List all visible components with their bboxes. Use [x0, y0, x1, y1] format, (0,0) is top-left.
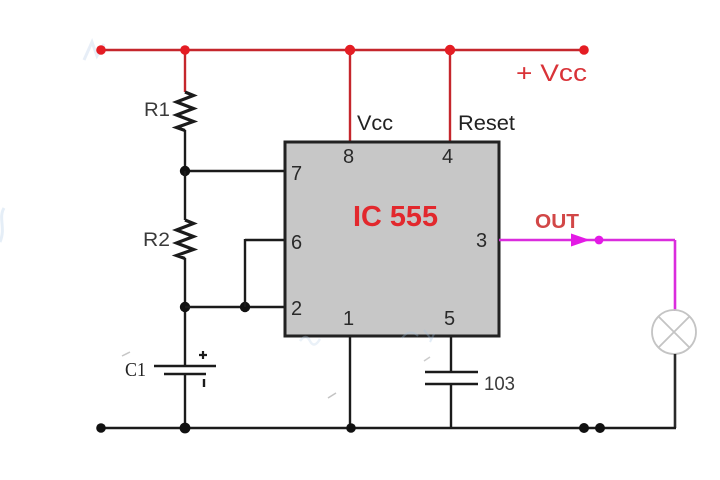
node pin6 drop junction	[240, 302, 250, 312]
node ground dot B	[595, 423, 605, 433]
node ground rail left end	[96, 423, 106, 433]
svg-text:7: 7	[291, 163, 302, 185]
svg-text:4: 4	[442, 146, 453, 168]
wire node to R2	[184, 171, 186, 220]
watermark squiggle left edge	[0, 208, 4, 242]
wire C1 to ground rail	[184, 374, 186, 428]
Vcc rail	[101, 49, 584, 51]
capacitor C2 plate bottom	[425, 383, 478, 386]
node R1-R2-pin7	[180, 166, 190, 176]
svg-text:1: 1	[343, 308, 354, 330]
watermark mark under IC	[300, 337, 320, 345]
node OUT dot	[595, 236, 604, 245]
capacitor C2 plate top	[425, 371, 478, 374]
svg-text:R1: R1	[144, 100, 170, 121]
wire pin 1 to ground	[349, 337, 351, 428]
svg-text:OUT: OUT	[535, 211, 579, 233]
watermark mark inside IC bottom	[402, 330, 434, 342]
wire pin 6 vertical	[244, 239, 246, 307]
svg-text:C1: C1	[125, 359, 146, 381]
wire pin 6 horizontal	[245, 239, 286, 241]
node ground dot A	[579, 423, 589, 433]
OUT arrowhead	[571, 234, 590, 247]
svg-text:6: 6	[291, 232, 302, 254]
wire Vcc to pin 8	[349, 50, 351, 141]
capacitor C1 plate top	[154, 365, 216, 368]
lamp L1 cross	[658, 316, 689, 347]
node pin 8 junction	[345, 45, 355, 55]
wire OUT vertical to lamp	[674, 240, 677, 311]
wire Vcc to R1	[184, 50, 186, 92]
svg-text:2: 2	[291, 298, 302, 320]
ground rail	[101, 427, 676, 429]
wire Vcc to pin 4	[449, 50, 451, 141]
wire lamp to ground rail	[674, 354, 677, 428]
small stray mark 3	[424, 357, 430, 361]
svg-text:103: 103	[484, 374, 515, 395]
node R1 junction	[180, 45, 190, 55]
svg-text:R2: R2	[143, 230, 170, 251]
svg-text:8: 8	[343, 146, 354, 168]
C1 minus tick	[203, 379, 205, 387]
svg-text:Reset: Reset	[458, 112, 515, 135]
svg-text:IC 555: IC 555	[353, 201, 438, 233]
watermark squiggle top-left	[84, 42, 104, 60]
IC 555 body U1	[285, 142, 499, 336]
resistor R1	[177, 92, 194, 131]
svg-text:Vcc: Vcc	[357, 112, 393, 135]
C1 plus sign	[199, 351, 207, 359]
node pin 4 junction	[445, 45, 455, 55]
svg-text:5: 5	[444, 308, 455, 330]
wire capacitor to ground	[450, 384, 452, 428]
node Vcc rail left end	[96, 45, 106, 55]
lamp L1 body	[652, 310, 696, 354]
wire R2 to C1	[184, 258, 186, 366]
node C1 ground junction	[180, 423, 191, 434]
svg-text:3: 3	[476, 230, 487, 252]
small stray mark 2	[328, 393, 336, 398]
wire node to pin 7	[184, 170, 286, 172]
svg-text:+ Vcc: + Vcc	[516, 60, 587, 87]
wire OUT pin 3	[499, 239, 675, 242]
capacitor C1 plate bottom	[164, 373, 206, 376]
wire R1 to node	[184, 130, 186, 172]
node Vcc rail right end	[579, 45, 589, 55]
resistor R2	[177, 220, 194, 259]
wire pin 5 to capacitor	[450, 337, 452, 371]
wire pin 2	[185, 306, 286, 308]
node pin1 ground junction	[346, 423, 356, 433]
small stray mark	[122, 352, 130, 356]
node pin2 junction left	[180, 302, 190, 312]
